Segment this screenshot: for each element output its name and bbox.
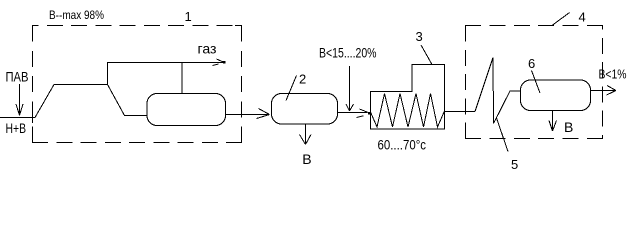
svg-text:В<15....20%: В<15....20%: [319, 45, 377, 61]
svg-text:1: 1: [185, 9, 192, 24]
svg-text:ПАВ: ПАВ: [6, 69, 29, 85]
svg-text:В<1%: В<1%: [599, 67, 627, 82]
svg-text:60....70°с: 60....70°с: [378, 137, 427, 153]
svg-text:Н+В: Н+В: [6, 120, 27, 136]
svg-text:6: 6: [528, 56, 535, 71]
svg-text:4: 4: [579, 10, 586, 25]
svg-text:3: 3: [416, 29, 423, 44]
svg-text:5: 5: [511, 157, 518, 172]
svg-text:В: В: [302, 151, 311, 167]
svg-text:В: В: [564, 119, 573, 135]
svg-text:газ: газ: [198, 41, 217, 57]
svg-text:В--max 98%: В--max 98%: [49, 8, 104, 22]
svg-text:2: 2: [299, 72, 306, 87]
